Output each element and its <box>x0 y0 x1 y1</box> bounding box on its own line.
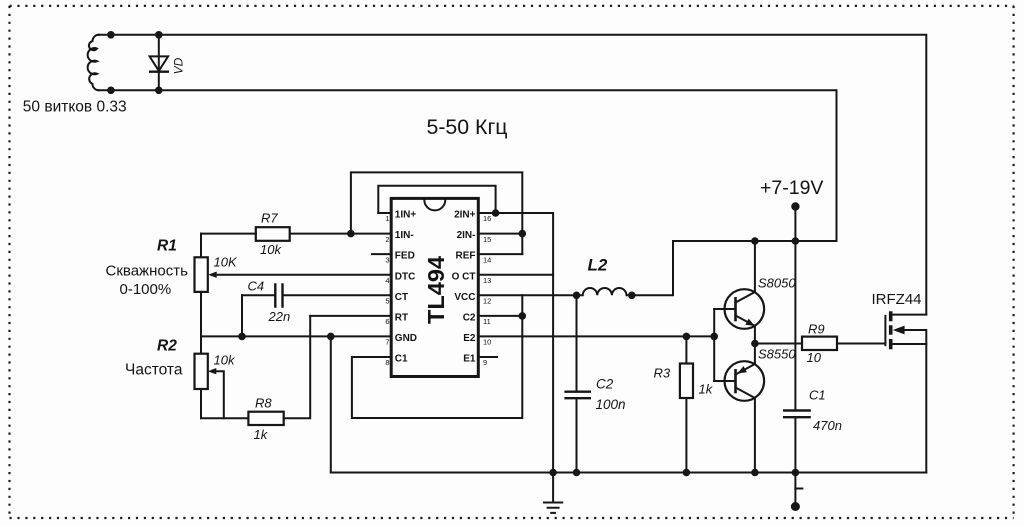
U1 pin labels left <box>395 210 417 365</box>
wire pin3 FED stub <box>372 253 391 255</box>
svg-text:9: 9 <box>483 358 487 367</box>
wire GND line drop to bottom rail <box>330 336 332 472</box>
svg-text:12: 12 <box>483 297 491 306</box>
wire pin13 O CT <box>478 274 553 276</box>
wire pin9 E1 stub <box>478 356 497 358</box>
svg-text:VD: VD <box>172 57 186 74</box>
node E2/R3 junction <box>683 333 691 341</box>
wire top rail to MOSFET drain <box>99 35 927 315</box>
svg-text:10k: 10k <box>260 242 282 257</box>
svg-text:2IN+: 2IN+ <box>454 210 476 221</box>
svg-text:E2: E2 <box>463 333 476 344</box>
op-amp U1 TL494 body <box>391 198 478 376</box>
svg-text:R7: R7 <box>261 211 278 226</box>
svg-text:VCC: VCC <box>454 292 475 303</box>
capacitor C2 <box>564 295 625 472</box>
ground <box>543 473 563 513</box>
node C4/GND junction <box>238 333 246 341</box>
wire inner loop pin1 to pin16 <box>378 186 495 213</box>
svg-text:50 витков 0.33: 50 витков 0.33 <box>23 99 127 116</box>
U1 pin numbers right 16-9 <box>483 214 491 367</box>
svg-text:R3: R3 <box>654 366 671 381</box>
svg-text:1: 1 <box>385 214 389 223</box>
node rail/C1 <box>792 469 800 477</box>
svg-text:7: 7 <box>385 338 389 347</box>
svg-text:C4: C4 <box>248 279 265 294</box>
svg-text:8: 8 <box>385 358 389 367</box>
transistor Q2 S8550 <box>714 344 796 473</box>
svg-text:14: 14 <box>483 255 491 264</box>
potentiometer R2 Частота <box>125 336 236 418</box>
svg-text:1k: 1k <box>699 382 714 397</box>
resistor R3 <box>654 336 714 472</box>
svg-text:6: 6 <box>385 317 389 326</box>
svg-text:TL494: TL494 <box>423 256 449 324</box>
svg-text:10: 10 <box>483 338 491 347</box>
node diode top <box>155 31 163 39</box>
node pin15 / outer loop junction <box>519 230 527 238</box>
node rail/pin16 drop <box>549 469 557 477</box>
svg-text:2: 2 <box>385 235 389 244</box>
negative supply terminal below rail <box>791 473 803 512</box>
svg-text:C1: C1 <box>809 388 826 403</box>
svg-text:1IN-: 1IN- <box>395 230 414 241</box>
wire pin6 RT <box>310 315 391 317</box>
node rail/C2 <box>573 469 581 477</box>
resistor R8 <box>201 316 310 442</box>
svg-text:1k: 1k <box>254 427 269 442</box>
svg-text:S8550: S8550 <box>758 347 796 362</box>
svg-text:R9: R9 <box>808 322 825 337</box>
svg-text:E1: E1 <box>463 354 476 365</box>
wire pin2 1IN- to R7 <box>290 233 391 235</box>
svg-text:Частота: Частота <box>125 362 183 379</box>
svg-text:5: 5 <box>385 297 389 306</box>
resistor R7 <box>201 211 290 257</box>
node diode bottom <box>155 87 163 95</box>
node rail / collector S8050 <box>751 237 759 245</box>
svg-text:100n: 100n <box>596 397 626 412</box>
wire pin7 GND line <box>201 335 391 337</box>
node pin16 / inner loop junction <box>492 209 500 217</box>
node E2/base junction <box>710 333 718 341</box>
node emitters junction <box>751 340 759 348</box>
svg-text:10K: 10K <box>214 255 238 270</box>
wire +7-19V supply rail <box>673 240 837 242</box>
svg-text:11: 11 <box>483 317 491 326</box>
svg-text:0-100%: 0-100% <box>120 281 172 298</box>
node pin2/R7 junction <box>347 230 355 238</box>
svg-text:REF: REF <box>456 251 476 262</box>
potentiometer R1 Скважность <box>106 234 392 337</box>
wire pin12 VCC to L2 <box>478 294 576 296</box>
inductor L2 <box>577 256 632 296</box>
wire pin14 REF <box>478 253 522 255</box>
svg-text:3: 3 <box>385 255 389 264</box>
capacitor C4 <box>242 279 391 337</box>
svg-text:C2: C2 <box>463 313 476 324</box>
svg-text:S8050: S8050 <box>758 276 796 291</box>
svg-text:O CT: O CT <box>452 271 476 282</box>
node L2 right <box>628 292 636 300</box>
wire pin15 2IN- <box>478 233 522 235</box>
node GND line to bottom rail junction <box>327 333 335 341</box>
diode VD <box>149 35 186 91</box>
wire pin11 C2 <box>478 315 522 317</box>
wire pin16 2IN+ to O-CT and ground rail <box>478 213 553 473</box>
svg-text:R8: R8 <box>255 396 272 411</box>
node rail/R3 <box>683 469 691 477</box>
svg-text:5-50 Кгц: 5-50 Кгц <box>427 115 508 139</box>
svg-text:IRFZ44: IRFZ44 <box>872 291 922 308</box>
svg-text:1IN+: 1IN+ <box>395 210 417 221</box>
U1 pin labels right <box>452 210 476 365</box>
wire outer loop pin2 to pin15 to pin14 <box>351 172 522 254</box>
resistor R9 <box>802 322 885 366</box>
transistor Q3 MOSFET IRFZ44 <box>872 291 927 473</box>
svg-text:+7-19V: +7-19V <box>760 177 823 199</box>
wire L2 to +supply rail <box>632 241 673 295</box>
node L2 left <box>573 292 581 300</box>
svg-text:C2: C2 <box>596 376 614 391</box>
svg-text:R2: R2 <box>157 338 177 355</box>
node supply terminal <box>791 202 799 210</box>
wire pin8 C1 loop to pin11 C2 and VCC <box>352 295 522 418</box>
node winding bottom <box>107 87 115 95</box>
wiper arrow of R2 <box>212 371 224 418</box>
svg-text:L2: L2 <box>588 256 608 275</box>
node rail / C1 branch <box>792 237 800 245</box>
wire pin1 1IN+ <box>378 212 391 214</box>
node rail/Q2 collector <box>751 469 759 477</box>
svg-text:DTC: DTC <box>395 271 416 282</box>
inductor T1 primary winding 50 витков <box>88 35 99 91</box>
wiper arrow of R1 to pin4 DTC <box>212 274 391 276</box>
svg-text:4: 4 <box>385 276 389 285</box>
svg-text:10k: 10k <box>214 353 236 368</box>
node pin11 junction <box>519 312 527 320</box>
svg-text:C1: C1 <box>395 354 408 365</box>
svg-text:16: 16 <box>483 214 491 223</box>
svg-text:2IN-: 2IN- <box>457 230 476 241</box>
supply terminal stub <box>794 207 796 242</box>
svg-text:22n: 22n <box>268 309 291 324</box>
wire base bus vertical <box>713 309 715 381</box>
wire bottom ground rail <box>331 472 927 474</box>
node winding top <box>107 31 115 39</box>
svg-text:13: 13 <box>483 276 491 285</box>
svg-text:GND: GND <box>395 333 417 344</box>
U1 pin numbers left 1-8 <box>385 214 389 367</box>
wire pin10 E2 to transistor bases <box>478 335 714 337</box>
capacitor C1 <box>783 241 842 473</box>
svg-text:15: 15 <box>483 235 491 244</box>
svg-text:RT: RT <box>395 313 408 324</box>
wire emitters to R9 <box>755 343 802 345</box>
wire winding bottom to +supply rail <box>99 90 837 241</box>
svg-text:CT: CT <box>395 292 408 303</box>
transistor Q1 S8050 <box>714 241 796 344</box>
svg-text:10: 10 <box>807 350 822 365</box>
svg-text:R1: R1 <box>157 238 177 255</box>
svg-text:470n: 470n <box>813 418 842 433</box>
svg-text:FED: FED <box>395 251 415 262</box>
svg-text:Скважность: Скважность <box>106 262 189 279</box>
